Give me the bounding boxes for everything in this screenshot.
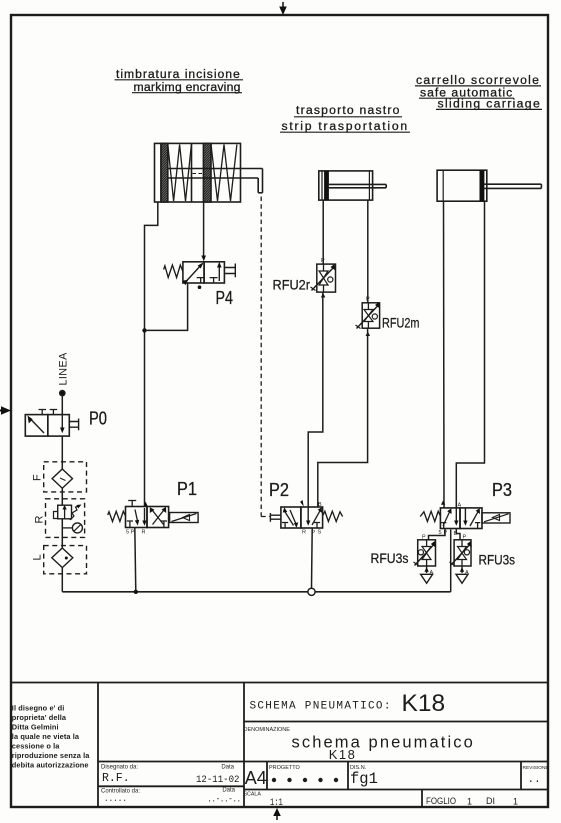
wire P3 to RFU3s right bbox=[456, 529, 460, 540]
registration arrow top bbox=[279, 2, 287, 15]
supply bus wire bbox=[62, 591, 450, 593]
valve P1 (5/2 solenoid-spring) bbox=[108, 501, 198, 528]
registration arrow left bbox=[0, 406, 11, 415]
lubricator L bbox=[44, 546, 87, 574]
title block texts bbox=[12, 690, 549, 809]
svg-text:K18: K18 bbox=[402, 690, 446, 717]
regulator R bbox=[46, 499, 85, 538]
svg-text:Ditta Gelmini: Ditta Gelmini bbox=[12, 723, 59, 732]
wire C2 right port to RFU2m bbox=[367, 200, 369, 303]
svg-text:markimg encraving: markimg encraving bbox=[134, 80, 241, 94]
svg-text:DENOMINAZIONE: DENOMINAZIONE bbox=[244, 727, 291, 733]
svg-text:P: P bbox=[422, 535, 426, 541]
svg-text:RFU3s: RFU3s bbox=[371, 550, 409, 566]
label P3 bbox=[492, 480, 512, 500]
svg-text:P: P bbox=[321, 258, 325, 264]
svg-text:LINEA: LINEA bbox=[57, 352, 69, 386]
label: trasporto nastro / strip trasportation bbox=[280, 103, 410, 133]
wire RFU2m to P2 port B bbox=[318, 328, 368, 507]
svg-text:P0: P0 bbox=[89, 409, 107, 429]
wire P3 to RFU3s left bbox=[429, 529, 446, 540]
svg-text:P: P bbox=[131, 530, 135, 536]
svg-text:P1: P1 bbox=[177, 479, 197, 499]
svg-text:..-..-..: ..-..-.. bbox=[208, 795, 242, 805]
svg-text:L: L bbox=[32, 554, 44, 560]
label P1 bbox=[177, 479, 197, 499]
svg-text:Data: Data bbox=[221, 765, 234, 771]
svg-text:P4: P4 bbox=[216, 288, 234, 308]
svg-text:P: P bbox=[366, 297, 370, 303]
svg-text:5: 5 bbox=[126, 530, 129, 536]
svg-text:DI: DI bbox=[486, 796, 495, 806]
svg-text:SCALA: SCALA bbox=[244, 792, 262, 798]
svg-text:1: 1 bbox=[513, 797, 518, 807]
svg-text:1: 1 bbox=[467, 797, 472, 807]
svg-text:P3: P3 bbox=[492, 480, 512, 500]
port labels P3 bbox=[439, 503, 462, 538]
svg-text:fg1: fg1 bbox=[350, 770, 378, 788]
wire C3 left port to P3 bbox=[443, 201, 446, 508]
svg-text:S: S bbox=[318, 530, 322, 536]
svg-text:R.F.: R.F. bbox=[102, 772, 130, 785]
port label P (RFU2r) bbox=[321, 258, 325, 264]
wire C3 right port to P3 bbox=[456, 201, 484, 508]
flow regulator RFU2m bbox=[356, 302, 381, 336]
port labels RFU3s right bbox=[463, 535, 470, 577]
svg-text:P2: P2 bbox=[269, 480, 289, 500]
svg-text:la quale ne vieta la: la quale ne vieta la bbox=[12, 732, 80, 741]
wire P2 supply bbox=[311, 528, 314, 588]
wire P1 supply bbox=[135, 528, 136, 592]
svg-text:sliding carriage: sliding carriage bbox=[438, 97, 542, 111]
svg-text:R: R bbox=[34, 516, 46, 524]
label RFU2m bbox=[382, 315, 420, 331]
flow regulator RFU3s (right) bbox=[450, 540, 472, 566]
label L bbox=[32, 554, 44, 560]
svg-text:Data: Data bbox=[222, 788, 235, 794]
label LINEA bbox=[57, 352, 69, 386]
registration arrow bottom bbox=[273, 808, 281, 820]
svg-text:cessione o la: cessione o la bbox=[12, 742, 61, 751]
svg-text:A: A bbox=[458, 503, 462, 509]
label: carrello scorrevole / safe automatic / sliding carriage bbox=[415, 73, 542, 111]
svg-text:1:1: 1:1 bbox=[270, 798, 283, 809]
valve P0 (3/2 hand valve) bbox=[25, 410, 78, 437]
filter F bbox=[44, 462, 87, 492]
valve P4 (3/2 roller) bbox=[164, 262, 236, 289]
svg-text:timbratura incisione: timbratura incisione bbox=[116, 67, 241, 81]
svg-text:Il disegno e' di: Il disegno e' di bbox=[12, 704, 65, 713]
wire P3 supply to bus bbox=[450, 530, 452, 592]
supply point LINEA bbox=[60, 391, 65, 415]
svg-text:.....: ..... bbox=[104, 794, 127, 804]
port labels RFU3s left bbox=[422, 535, 434, 577]
label RFU3s (right) bbox=[479, 552, 516, 568]
label R bbox=[34, 516, 46, 524]
svg-text:SCHEMA PNEUMATICO:: SCHEMA PNEUMATICO: bbox=[250, 701, 392, 713]
svg-text:F: F bbox=[32, 474, 44, 481]
svg-text:B: B bbox=[318, 502, 322, 508]
svg-text:PROGETTO: PROGETTO bbox=[269, 765, 300, 771]
junction circle P2 supply bbox=[308, 588, 315, 595]
wire C1 middle port to valve P4 bbox=[201, 202, 206, 261]
svg-text:FOGLIO: FOGLIO bbox=[426, 796, 456, 806]
svg-text:RFU3s: RFU3s bbox=[479, 552, 516, 568]
label P2 bbox=[269, 480, 289, 500]
cylinder C3 (carrello scorrevole) bbox=[437, 170, 541, 201]
label P0 bbox=[89, 409, 107, 429]
valve P3 (5/2 solenoid-spring) bbox=[420, 501, 510, 529]
wire P0 to FRL to bus bbox=[61, 436, 63, 592]
cylinder C2 (trasporto nastro) bbox=[319, 171, 386, 200]
svg-text:P: P bbox=[463, 535, 467, 541]
valve P2 (5/2 pilot-spring) bbox=[270, 500, 342, 528]
svg-text:strip trasportation: strip trasportation bbox=[282, 119, 409, 133]
wire C2 left port to RFU2r bbox=[322, 200, 324, 264]
svg-text:..: .. bbox=[528, 774, 541, 786]
title block bbox=[11, 683, 548, 808]
port label P (RFU2m) bbox=[366, 297, 370, 303]
svg-text:A4: A4 bbox=[245, 768, 267, 788]
exhaust silencer left bbox=[421, 566, 433, 583]
label: timbratura incisione / markimg encraving bbox=[115, 67, 244, 94]
svg-text:schema pneumatico: schema pneumatico bbox=[292, 734, 475, 752]
wire RFU2r to P2 port A bbox=[308, 292, 323, 507]
svg-text:Disegnato da:: Disegnato da: bbox=[101, 765, 138, 771]
svg-text:R: R bbox=[302, 530, 306, 536]
svg-text:REVISIONE: REVISIONE bbox=[523, 765, 549, 771]
junction dot (P4 branch) bbox=[142, 328, 146, 332]
label P4 bbox=[216, 288, 234, 308]
wire P4 output to junction bbox=[145, 283, 188, 330]
svg-text:proprieta' della: proprieta' della bbox=[12, 713, 67, 722]
svg-text:riproduzione senza la: riproduzione senza la bbox=[12, 751, 90, 760]
cylinder C1 (stamping unit, double spring) bbox=[155, 143, 263, 202]
wire C1 left port to valve P1 bbox=[145, 202, 158, 507]
svg-text:R: R bbox=[142, 530, 146, 536]
svg-text:RFU2r: RFU2r bbox=[273, 277, 311, 293]
pilot dashed line (rod end C1 to P2 pilot) bbox=[261, 197, 269, 517]
label RFU2r bbox=[273, 277, 311, 293]
svg-text:debita autorizzazione: debita autorizzazione bbox=[12, 761, 89, 770]
svg-text:12-11-02: 12-11-02 bbox=[196, 775, 240, 786]
svg-text:RFU2m: RFU2m bbox=[382, 315, 420, 331]
flow regulator RFU3s (left) bbox=[414, 540, 436, 566]
svg-text:K18: K18 bbox=[329, 747, 357, 762]
flow regulator RFU2r bbox=[311, 264, 336, 298]
exhaust silencer right bbox=[456, 566, 468, 583]
junction dot P1 supply bbox=[134, 590, 138, 594]
label F bbox=[32, 474, 44, 481]
svg-text:trasporto nastro: trasporto nastro bbox=[296, 103, 401, 117]
label RFU3s (left) bbox=[371, 550, 409, 566]
port labels P1 bbox=[126, 530, 146, 536]
port labels P2 bbox=[302, 502, 322, 536]
